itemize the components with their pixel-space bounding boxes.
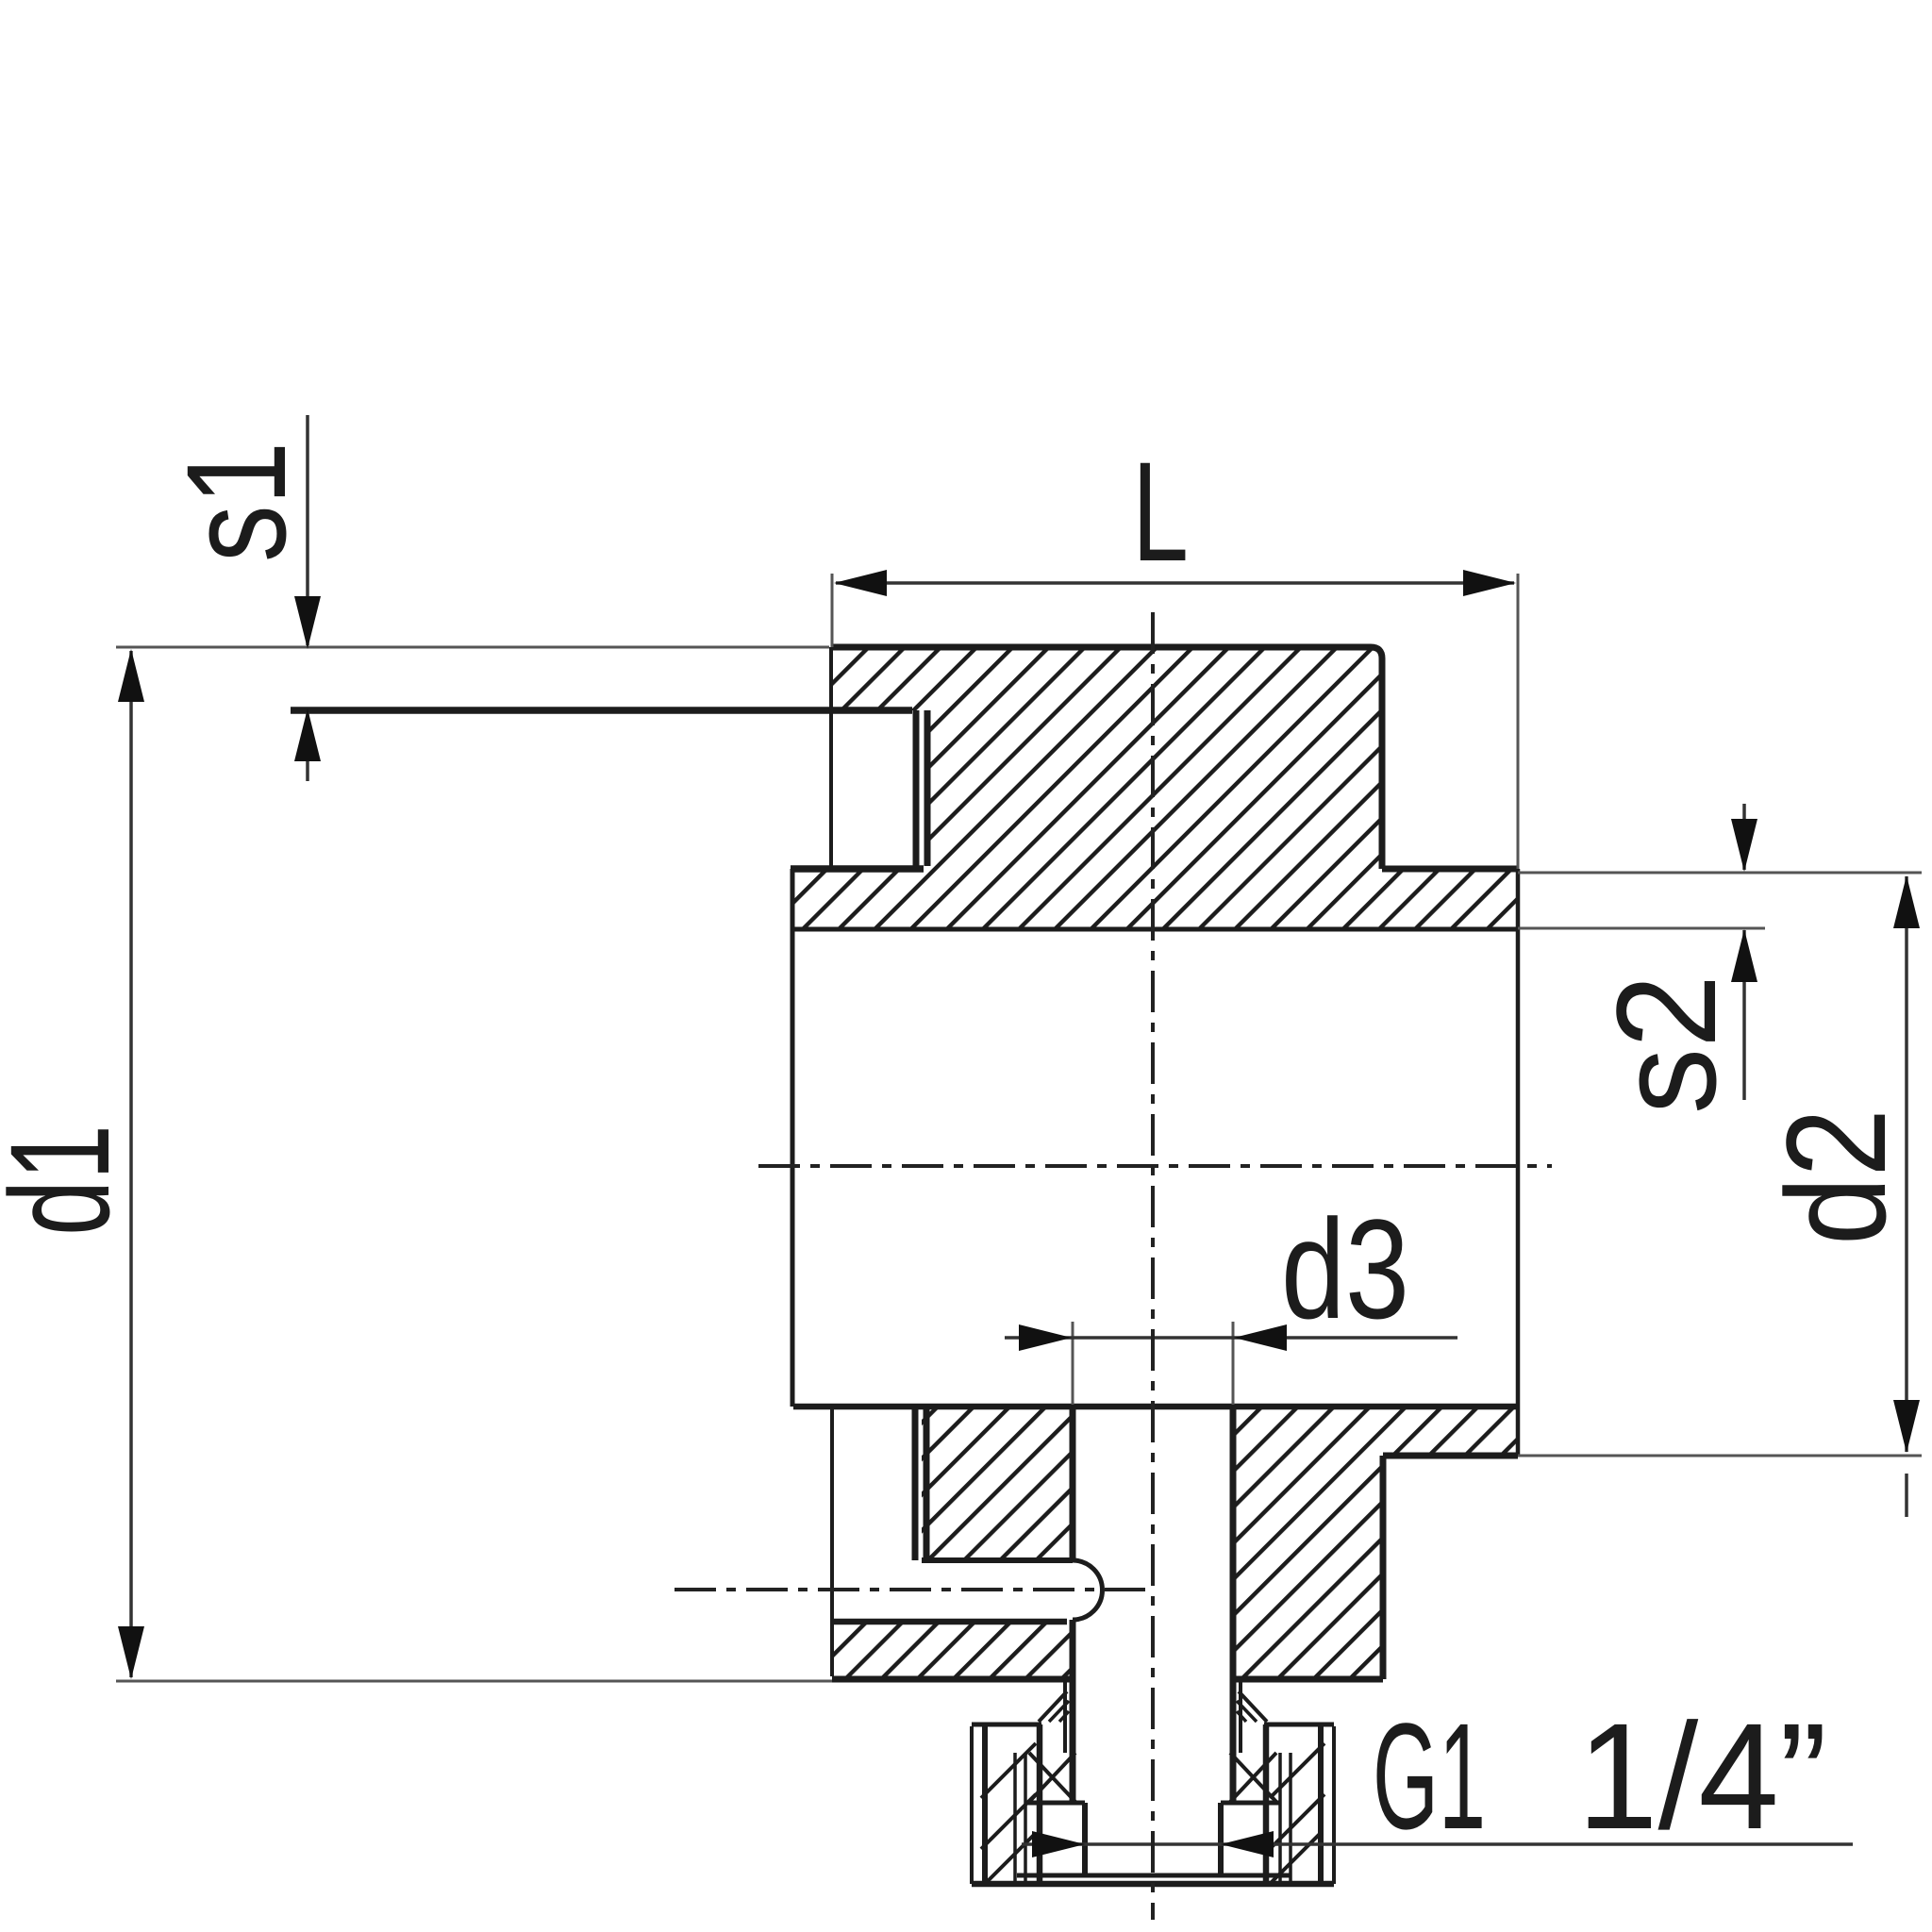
notch / side hole bottom line [832, 1619, 1067, 1625]
L right arrow [1463, 570, 1516, 596]
svg-text:s1: s1 [157, 441, 315, 562]
vertical centerline [1151, 612, 1155, 1920]
dimension d2 line [1905, 876, 1908, 1452]
arrowheads [118, 570, 1920, 1857]
spigot chamfer left [1039, 1691, 1067, 1722]
L right extension / d2 upper region [1517, 574, 1520, 869]
hatched pipe top wall band (region B) [792, 869, 1518, 929]
part top face [831, 647, 1382, 869]
s1 lower arrow [294, 708, 321, 761]
dimension d3 line [1005, 1336, 1457, 1340]
svg-text:L: L [1132, 432, 1189, 591]
dimension s1 line lower [306, 712, 309, 781]
nut outer left double [970, 1726, 974, 1884]
s1 upper arrow [294, 596, 321, 649]
nut top face left [972, 1723, 1041, 1727]
side hole drill end arc [1073, 1560, 1103, 1620]
svg-text:1/4”: 1/4” [1577, 1691, 1827, 1860]
thread boundary left [1037, 1724, 1043, 1883]
d1 top arrow [118, 649, 144, 702]
dimension s2 upper [1742, 804, 1746, 870]
d2 lower bar [1905, 1474, 1908, 1517]
d3 right arrow [1234, 1324, 1287, 1351]
pipe bottom ring bottom right [1383, 1453, 1518, 1459]
d3 left arrow [1019, 1324, 1072, 1351]
d2 bottom extension [1518, 1455, 1922, 1457]
G right arrow [1221, 1831, 1274, 1857]
pipe bore bottom line [793, 1404, 1518, 1410]
svg-text:d3: d3 [1281, 1190, 1409, 1348]
hatched flange disc top (region A) [831, 647, 1382, 869]
horizontal centerline side hole [675, 1588, 1145, 1591]
insert double left [1013, 1753, 1017, 1882]
dimension d1 line [129, 651, 133, 1677]
thread X chamfers left [1029, 1753, 1075, 1802]
side hole top line [922, 1557, 1073, 1563]
top face extension to left [116, 646, 829, 649]
G left arrow [1032, 1831, 1085, 1857]
thread X chamfers right [1230, 1753, 1276, 1802]
bottom notch right wall double line [912, 1409, 919, 1560]
horizontal centerline main axis [758, 1164, 1552, 1168]
L left extension [831, 574, 834, 647]
s2 upper arrow [1731, 819, 1757, 872]
dimension L line [836, 581, 1514, 585]
d3 right extension [1232, 1322, 1235, 1405]
spigot outer left [1063, 1679, 1067, 1753]
nut top face right [1264, 1723, 1334, 1727]
outlet bore right wall [1230, 1407, 1237, 1802]
hatched bottom-right flange (region D) [1236, 1409, 1518, 1679]
svg-text:d1: d1 [0, 1124, 139, 1236]
nut flank hatch left [981, 1743, 1036, 1798]
svg-text:s2: s2 [1587, 974, 1745, 1114]
pipe OD top-left / groove bottom [791, 865, 924, 873]
dimension s1 line upper [306, 415, 309, 645]
d2 top arrow [1893, 875, 1920, 928]
bottom-left outer edge [830, 1409, 834, 1676]
spigot chamfer right [1239, 1691, 1267, 1722]
bottom flange right face [1380, 1456, 1387, 1679]
pipe left face and left rim [791, 869, 795, 1407]
insert shoulder left [1025, 1801, 1085, 1806]
flange left face top [829, 647, 833, 866]
insert shoulder right [1221, 1801, 1280, 1806]
extension lines (thin gray) [116, 574, 1922, 1681]
s1 thick lip line [291, 707, 912, 714]
nut outer right double [1332, 1726, 1336, 1884]
spigot outer right [1239, 1679, 1242, 1753]
d3 left extension [1072, 1322, 1074, 1405]
svg-text:G1: G1 [1373, 1691, 1486, 1860]
step to pipe OD right [1382, 866, 1518, 873]
insert double right [1278, 1753, 1282, 1882]
bottom face right [1236, 1676, 1383, 1683]
s2/d2 top extension [1518, 872, 1922, 874]
s2 lower arrow [1731, 929, 1757, 982]
d1 bottom arrow [118, 1626, 144, 1679]
pipe bore top line [791, 927, 1518, 932]
hatched bottom-left flange (region C) [922, 1409, 1070, 1560]
pipe right end rim [1516, 869, 1521, 1456]
dimension G line [1022, 1842, 1853, 1846]
thread bore wall right [1218, 1803, 1224, 1877]
nut flank hatch right [1270, 1743, 1324, 1798]
d2 bottom arrow [1893, 1400, 1920, 1453]
dimension s2 lower [1742, 930, 1746, 1100]
bottom face extension to left [116, 1680, 832, 1683]
thread boundary right [1263, 1724, 1270, 1883]
insert bottom [1017, 1874, 1291, 1878]
svg-text:d2: d2 [1757, 1108, 1915, 1245]
s2 bottom extension [1518, 927, 1765, 930]
thread bore wall left [1082, 1803, 1088, 1877]
nut bottom face [972, 1881, 1334, 1888]
outlet bore left wall [1070, 1407, 1076, 1560]
bottom face left [832, 1676, 1070, 1683]
groove right wall double line [913, 710, 920, 866]
L left arrow [834, 570, 887, 596]
